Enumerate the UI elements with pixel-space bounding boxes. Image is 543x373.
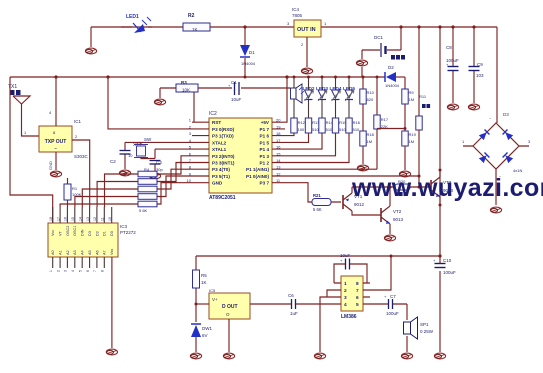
- svg-text:R16: R16: [353, 120, 361, 125]
- capacitor C5 bypass: [334, 253, 367, 283]
- svg-text:10uF: 10uF: [231, 97, 242, 102]
- node rail junctions: [107, 76, 110, 79]
- IC5 data slicer D-OUT: [209, 288, 250, 319]
- svg-text:3: 3: [64, 270, 68, 272]
- svg-text:10K: 10K: [182, 88, 190, 93]
- capacitor C3: [150, 149, 164, 172]
- ground IC1: [50, 171, 61, 177]
- svg-text:8: 8: [356, 281, 359, 287]
- svg-text:Vcc: Vcc: [51, 230, 55, 236]
- ground LM386: [314, 353, 325, 359]
- ground VT2: [384, 235, 395, 241]
- svg-text:R10: R10: [367, 90, 375, 95]
- resistor R11: [416, 25, 430, 187]
- svg-text:D1: D1: [103, 231, 107, 236]
- svg-text:5: 5: [356, 302, 359, 308]
- IC3 decoder PT2272: [48, 223, 136, 257]
- wire P3.4 row to R11 column: [285, 175, 419, 177]
- svg-text:D1: D1: [249, 50, 255, 55]
- wire stub to ground top-left: [90, 27, 92, 47]
- svg-text:R17: R17: [381, 117, 389, 122]
- transistor VT3 9013: [431, 170, 454, 205]
- diode D2 1N4004: [385, 65, 405, 88]
- wire P3.3 row to R17 column: [285, 168, 377, 170]
- wire left rail to IC3: [10, 77, 53, 223]
- svg-text:19: 19: [276, 124, 281, 129]
- svg-text:D3: D3: [503, 112, 509, 117]
- svg-text:C8: C8: [446, 45, 452, 50]
- svg-text:12: 12: [93, 217, 97, 221]
- LED LED5: [343, 77, 355, 118]
- ground C8: [447, 104, 458, 110]
- speaker SP1: [404, 304, 434, 352]
- resistor R16: [346, 118, 361, 133]
- wire V+ to LM386: [370, 256, 391, 290]
- node p2 junction: [106, 75, 109, 78]
- svg-text:LED1: LED1: [126, 14, 139, 20]
- resistor R14: [319, 118, 334, 133]
- svg-text:OSC1: OSC1: [73, 226, 77, 236]
- wire RST net: [160, 88, 290, 122]
- svg-text:DIN: DIN: [81, 229, 85, 236]
- svg-text:P1 1(AIN1): P1 1(AIN1): [246, 167, 269, 172]
- svg-text:14: 14: [78, 217, 82, 221]
- ground C9: [468, 104, 479, 110]
- svg-text:LM386: LM386: [341, 314, 357, 320]
- svg-text:6V: 6V: [202, 333, 208, 338]
- svg-text:A5: A5: [88, 250, 92, 255]
- svg-text:A6: A6: [95, 250, 99, 255]
- svg-text:O: O: [226, 312, 230, 317]
- svg-text:5 6K: 5 6K: [139, 208, 148, 213]
- svg-text:8: 8: [101, 270, 105, 272]
- svg-text:R5: R5: [201, 273, 207, 278]
- svg-text:IC5: IC5: [209, 288, 216, 293]
- IC2 MCU AT89C2051: [209, 111, 272, 201]
- svg-text:R9: R9: [409, 90, 415, 95]
- svg-text:SW: SW: [144, 137, 152, 142]
- svg-text:P1 4: P1 4: [260, 147, 270, 152]
- wire top rail right segment: [321, 26, 497, 28]
- svg-text:1M: 1M: [409, 139, 415, 144]
- wire RXD line: [108, 77, 192, 129]
- svg-text:P3 0(RXD): P3 0(RXD): [212, 127, 235, 132]
- ground battery: [356, 60, 367, 66]
- svg-text:TX1: TX1: [8, 84, 17, 90]
- wire main vertical V+ column: [439, 27, 441, 352]
- svg-text:12: 12: [276, 172, 281, 177]
- svg-text:OSC2: OSC2: [66, 226, 70, 236]
- ground DW1: [190, 353, 201, 359]
- svg-text:XTAL2: XTAL2: [212, 140, 227, 145]
- resistor R21: [285, 183, 341, 212]
- svg-text:1: 1: [49, 270, 53, 272]
- capacitor C10: [435, 258, 457, 275]
- svg-text:C2: C2: [110, 159, 116, 164]
- resistor R17: [374, 77, 389, 129]
- diode D1 1N4004: [240, 27, 256, 77]
- wire IC1 pin2 to decoder: [72, 140, 90, 207]
- svg-text:D0: D0: [110, 231, 114, 236]
- svg-text:S303C: S303C: [74, 154, 89, 159]
- svg-text:100K: 100K: [72, 192, 82, 197]
- svg-text:A0: A0: [51, 250, 55, 255]
- capacitor C1: [231, 80, 242, 102]
- wire emitter rail to VT3: [352, 186, 431, 188]
- svg-text:100uF: 100uF: [386, 311, 399, 316]
- LED LED1: [121, 14, 152, 33]
- svg-text:13: 13: [86, 217, 90, 221]
- svg-text:GND: GND: [48, 161, 53, 170]
- svg-text:www.wuyazi.com: www.wuyazi.com: [351, 174, 543, 202]
- svg-text:15: 15: [71, 217, 75, 221]
- svg-text:9013: 9013: [393, 217, 404, 222]
- svg-text:SP1: SP1: [420, 322, 429, 327]
- svg-text:IC2: IC2: [209, 111, 217, 117]
- LED LED4: [330, 77, 342, 118]
- svg-text:14: 14: [276, 158, 281, 163]
- svg-text:R12: R12: [298, 120, 306, 125]
- ground R19: [399, 171, 410, 177]
- svg-text:6: 6: [86, 270, 90, 272]
- svg-text:C7: C7: [390, 294, 396, 299]
- svg-text:13: 13: [276, 165, 281, 170]
- wire +5V pin to rail: [285, 77, 287, 122]
- capacitor C8: [446, 25, 459, 103]
- wire IC1 top pin to ground rail: [55, 77, 57, 126]
- ground top-left: [85, 48, 96, 54]
- svg-text:16: 16: [276, 145, 281, 150]
- svg-text:V+: V+: [212, 297, 218, 302]
- svg-text:GND: GND: [212, 181, 223, 186]
- svg-text:10: 10: [128, 153, 133, 158]
- svg-text:17: 17: [56, 217, 60, 221]
- svg-text:D OUT: D OUT: [222, 304, 238, 310]
- resistor R18: [360, 116, 375, 164]
- resistor R10: [360, 77, 375, 116]
- svg-text:10: 10: [108, 217, 112, 221]
- svg-text:A1: A1: [59, 250, 63, 255]
- svg-text:IC4: IC4: [292, 7, 300, 12]
- svg-text:IC3: IC3: [120, 224, 128, 229]
- svg-text:7: 7: [356, 288, 359, 294]
- svg-text:IC1: IC1: [74, 119, 82, 124]
- svg-text:R11: R11: [419, 94, 427, 99]
- svg-text:D2: D2: [95, 231, 99, 236]
- resistor R13: [305, 118, 320, 133]
- svg-text:11: 11: [101, 217, 105, 221]
- svg-text:A7: A7: [103, 250, 107, 255]
- wire ground rail y77: [10, 76, 385, 78]
- wire LM386 ground pins: [320, 290, 334, 352]
- svg-text:2: 2: [56, 270, 60, 272]
- svg-text:1N4004: 1N4004: [385, 83, 400, 88]
- svg-text:100: 100: [298, 127, 305, 132]
- svg-text:17: 17: [276, 138, 281, 143]
- svg-text:PT2272: PT2272: [120, 230, 136, 235]
- svg-text:R21: R21: [313, 193, 321, 198]
- crystal XT1: [133, 137, 155, 159]
- svg-text:100uF: 100uF: [443, 270, 456, 275]
- svg-text:1M: 1M: [367, 139, 373, 144]
- svg-text:D2: D2: [388, 65, 394, 70]
- ground C3: [149, 173, 160, 179]
- svg-text:20: 20: [276, 118, 281, 123]
- svg-text:R19: R19: [409, 132, 417, 137]
- svg-text:18: 18: [276, 131, 281, 136]
- ground R18: [357, 165, 368, 171]
- svg-text:C6: C6: [288, 293, 294, 298]
- svg-text:P1 5: P1 5: [260, 140, 270, 145]
- svg-text:DW1: DW1: [202, 326, 212, 331]
- IC3 pin stubs bottom: [53, 257, 105, 268]
- svg-text:P1 2: P1 2: [260, 161, 270, 166]
- IC1 receiver module TXP/OUT: [39, 119, 89, 159]
- IC2 pin stubs left: [192, 122, 209, 183]
- svg-text:A4: A4: [81, 250, 85, 255]
- zener DW1: [191, 324, 212, 352]
- antenna TX1: [8, 84, 39, 136]
- svg-text:3: 3: [344, 295, 347, 301]
- svg-text:7805: 7805: [292, 13, 303, 18]
- resistor R3: [176, 80, 198, 93]
- svg-text:P1 7: P1 7: [260, 127, 270, 132]
- IC4 7805 regulator: [287, 7, 327, 47]
- svg-text:TXP OUT: TXP OUT: [45, 139, 67, 145]
- resistor R12: [291, 118, 306, 133]
- wire R5 node to IC5: [196, 303, 209, 305]
- capacitor C6: [250, 293, 334, 316]
- svg-text:A3: A3: [73, 250, 77, 255]
- svg-text:1K: 1K: [192, 27, 198, 32]
- wire IC1 ground pin: [55, 152, 57, 170]
- svg-text:1N4004: 1N4004: [241, 61, 256, 66]
- svg-text:R18: R18: [367, 132, 375, 137]
- ground IC3 Vss: [106, 349, 117, 355]
- svg-text:5 6K: 5 6K: [313, 207, 322, 212]
- resistor R15: [332, 118, 347, 133]
- LM386 pin stubs: [334, 283, 370, 304]
- ground bridge: [490, 207, 501, 213]
- svg-text:1M: 1M: [409, 97, 415, 102]
- svg-text:820: 820: [367, 97, 374, 102]
- wire R17 bottom to R9 node: [377, 129, 405, 170]
- svg-text:9012: 9012: [354, 202, 365, 207]
- svg-text:R1: R1: [72, 186, 78, 191]
- svg-text:P3 3(INT1): P3 3(INT1): [212, 161, 235, 166]
- svg-text:15: 15: [276, 151, 281, 156]
- resistor R2: [183, 13, 210, 32]
- ground R3: [154, 99, 165, 105]
- battery DC1: [362, 25, 405, 59]
- svg-text:1uF: 1uF: [290, 311, 298, 316]
- wire XTAL2 row: [125, 141, 192, 143]
- svg-text:AT89C2051: AT89C2051: [209, 195, 236, 201]
- svg-text:0 25W: 0 25W: [420, 329, 434, 334]
- svg-text:~: ~: [54, 147, 57, 153]
- svg-text:Vss: Vss: [110, 249, 114, 255]
- resistor R1: [64, 178, 82, 207]
- svg-text:+5V: +5V: [261, 120, 270, 125]
- svg-text:DC1: DC1: [374, 35, 383, 40]
- svg-text:P3 2(INT0): P3 2(INT0): [212, 154, 235, 159]
- svg-text:7: 7: [93, 270, 97, 272]
- wire XTAL1 row: [155, 148, 192, 150]
- wire LED columns to MCU pins: [285, 133, 349, 163]
- svg-text:P1 6: P1 6: [260, 134, 270, 139]
- LED LED2: [303, 77, 315, 118]
- wire IC4 ground pin: [306, 37, 308, 67]
- svg-text:P3 7: P3 7: [260, 181, 270, 186]
- svg-text:D3: D3: [88, 231, 92, 236]
- wire IC3 Vss to ground: [111, 257, 113, 348]
- svg-text:P1 3: P1 3: [260, 154, 270, 159]
- svg-text:1K: 1K: [201, 280, 207, 285]
- resistor R5: [193, 256, 208, 322]
- ground IC4: [301, 68, 312, 74]
- svg-text:4x1N: 4x1N: [513, 168, 522, 173]
- svg-text:16: 16: [64, 217, 68, 221]
- bridge rectifier D3: [462, 27, 531, 205]
- IC2 pin stubs right: [272, 122, 285, 183]
- LED LED3: [316, 77, 328, 118]
- svg-text:VT2: VT2: [393, 209, 402, 214]
- resistor R20: [395, 179, 410, 196]
- buzzer B1: [291, 77, 305, 118]
- svg-text:R2: R2: [188, 13, 195, 19]
- svg-text:C10: C10: [443, 258, 452, 263]
- svg-text:4: 4: [71, 270, 75, 272]
- ground SP1: [401, 353, 412, 359]
- svg-text:VT: VT: [59, 230, 63, 236]
- ground C10: [434, 353, 445, 359]
- capacitor C2: [110, 142, 133, 169]
- resistor R9: [402, 77, 415, 131]
- svg-text:5: 5: [78, 270, 82, 272]
- wire bottom supply rail: [196, 255, 440, 257]
- svg-text:103: 103: [476, 73, 484, 78]
- capacitor C9: [469, 25, 485, 103]
- resistor network R4-R8: [138, 167, 157, 213]
- wire bus MCU to decoder: [60, 156, 192, 207]
- svg-text:6: 6: [356, 295, 359, 301]
- svg-text:4: 4: [344, 302, 347, 308]
- svg-text:18: 18: [49, 217, 53, 221]
- resistor R19: [402, 131, 417, 170]
- svg-text:A2: A2: [66, 250, 70, 255]
- transistor VT2 9013: [381, 187, 404, 234]
- svg-text:XTAL1: XTAL1: [212, 147, 227, 152]
- svg-text:OUT IN: OUT IN: [297, 27, 316, 33]
- transistor VT1 9012: [343, 187, 381, 215]
- IC6 amplifier LM386: [341, 276, 363, 320]
- svg-text:P1 0(AIN0): P1 0(AIN0): [246, 174, 269, 179]
- wire top rail left segment: [91, 26, 294, 28]
- svg-text:P3 5(T1): P3 5(T1): [212, 174, 230, 179]
- ground C2: [119, 170, 130, 176]
- node junction D1 top: [243, 25, 246, 28]
- ground IC5: [223, 353, 234, 359]
- capacitor C7: [370, 294, 407, 316]
- wire battery minus to ground rail: [361, 50, 363, 77]
- svg-text:P3 4(T0): P3 4(T0): [212, 167, 230, 172]
- svg-text:1: 1: [344, 281, 347, 287]
- svg-text:RST: RST: [212, 120, 221, 125]
- svg-text:P3 1(TXD): P3 1(TXD): [212, 134, 234, 139]
- IC3 pin stubs top: [53, 207, 112, 223]
- svg-text:510: 510: [353, 127, 360, 132]
- svg-text:2: 2: [344, 288, 347, 294]
- wire IC5 ground pin: [228, 319, 230, 352]
